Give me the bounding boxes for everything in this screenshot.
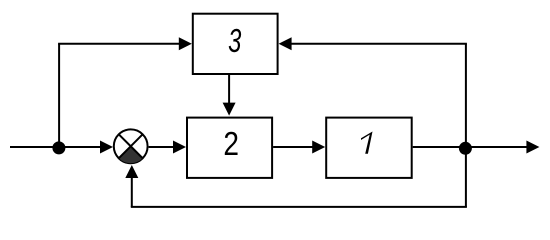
wire output arrowhead	[526, 141, 539, 154]
summing junction	[114, 129, 148, 163]
wire right vertical feedback	[465, 44, 467, 207]
wire top-left horizontal to block 3	[58, 43, 180, 45]
node output branch dot	[459, 142, 472, 155]
wire summing junction to block 2	[149, 146, 174, 148]
wire output line	[466, 146, 528, 148]
wire bottom-left vertical up to summing junction	[131, 177, 133, 207]
wire arrowhead into summing junction	[100, 141, 113, 154]
wire arrowhead into block 2 left	[173, 141, 186, 154]
wire arrowhead into block 1 left	[312, 141, 325, 154]
wire block 2 to block 1	[273, 146, 313, 148]
block 2	[187, 118, 272, 178]
wire arrowhead into block 3 left	[179, 37, 192, 50]
wire from block 3 bottom down	[228, 74, 230, 105]
svg-text:3: 3	[228, 23, 241, 60]
wire input line	[10, 146, 101, 148]
wire vertical from input node up	[58, 44, 60, 147]
block 3	[193, 14, 278, 74]
node input branch dot	[52, 141, 65, 154]
wire top-right horizontal to block 3	[291, 43, 467, 45]
wire arrowhead down into block 2 top	[223, 103, 236, 116]
block 1	[326, 118, 412, 178]
wire arrowhead into block 3 right	[279, 37, 292, 50]
svg-text:2: 2	[223, 126, 239, 163]
wire bottom feedback horizontal	[131, 206, 467, 208]
wire block 1 to output node	[413, 146, 466, 148]
wire arrowhead up into summing junction	[125, 165, 138, 178]
